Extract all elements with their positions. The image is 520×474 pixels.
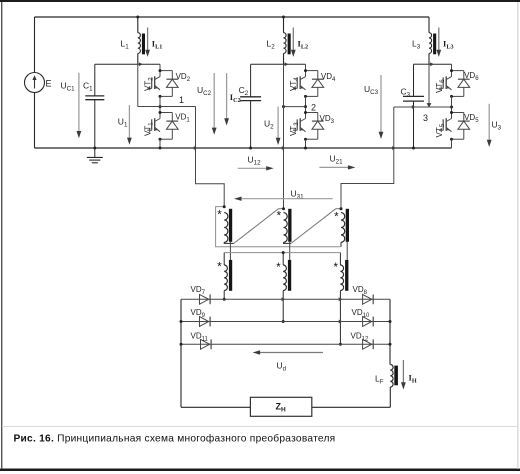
svg-text:LF: LF [375,374,384,386]
svg-text:VD5: VD5 [464,113,479,124]
svg-text:U2: U2 [264,119,274,131]
svg-text:VD1: VD1 [175,113,190,124]
wire VT4 top stub [305,64,307,70]
label VT3 [289,122,300,136]
transistor VT6 / diode VD6 pair [452,70,464,72]
wire s1 bottom to rail 1 [223,291,225,300]
wire s3 top lead [339,253,341,265]
svg-text:VD11: VD11 [191,332,209,343]
node rail3 right [389,343,392,346]
diode VD11 [201,339,210,349]
wire node 1 line [138,64,196,106]
voltage arrow U_C1 [78,73,80,133]
svg-text:IL3: IL3 [443,39,454,51]
wire node 3 tap down [341,107,394,209]
wire left bus [180,299,182,407]
svg-text:E: E [46,79,52,89]
load Z_H box [250,397,311,416]
svg-text:L3: L3 [412,39,421,51]
diode VD7 [200,294,209,304]
svg-text:L2: L2 [267,39,276,51]
wire right bus [389,299,391,364]
wire wrap-around bus [216,207,341,247]
node L1 top junction [136,16,139,19]
crossing marker s2/rail1 [282,297,286,301]
svg-text:VD8: VD8 [353,285,368,296]
svg-text:1: 1 [179,95,184,105]
svg-text:VD9: VD9 [191,308,206,319]
svg-text:Ud: Ud [277,361,286,373]
diode VD12 [363,339,372,349]
voltage arrow U_3 [488,104,490,141]
secondary winding s3 [340,265,343,291]
svg-text:IL2: IL2 [298,39,309,51]
svg-text:Рис. 16. Принципиальная схема: Рис. 16. Принципиальная схема многофазно… [14,433,336,445]
label VT1 [143,122,154,136]
wire node 2 tap down [283,64,285,208]
current arrow I_H [402,360,404,384]
svg-text:2: 2 [311,102,316,112]
svg-text:VD6: VD6 [464,71,479,82]
voltage arrow U_C3 [380,75,382,133]
wire rectifier rail 2 [181,321,390,323]
wire C1 to L1 node [95,63,138,65]
node C2 ground [249,147,252,150]
wire w1 bottom to diagonal [224,242,234,243]
node s2/rail2 [282,320,285,323]
secondary winding s2 [283,265,286,291]
svg-text:UC3: UC3 [364,84,379,96]
node VT1 ground [159,147,162,150]
wire s1 top lead [223,253,225,265]
svg-text:U3: U3 [492,120,502,132]
primary winding w1 [224,213,228,243]
wire VT4 emitter to node 2 [305,96,307,112]
node 2 tap junction [282,105,285,108]
wire L1 node to VT2 branch [138,63,160,65]
wire node 2 line [284,106,306,108]
primary winding w2 [284,213,288,243]
svg-text:C2: C2 [239,85,249,97]
node 2 junction [304,105,307,108]
crossing marker tap2/rail [282,146,286,150]
transistor VT2 / diode VD2 pair [160,70,172,72]
current arrow I_C2 [226,73,228,119]
source E [34,17,36,73]
svg-text:*: * [334,212,339,224]
crossing marker C3/node3 line [412,105,416,109]
junction marker L1 node [139,62,143,66]
node C1 ground [93,147,96,150]
wire node 3 line [394,106,452,108]
svg-text:VD3: VD3 [320,114,335,125]
secondary winding s1 [224,265,227,291]
crossing marker s3/rail1 [339,297,343,301]
diode VD8 [363,294,372,304]
wire node 1 tap down [196,107,225,207]
wire VT5 emitter to rail [451,139,453,148]
node winding w2 top [282,207,285,210]
core link w1 [229,242,231,260]
current arrow I_L3 [438,28,440,51]
svg-text:IL1: IL1 [152,39,163,51]
voltage arrow U_C2 [213,73,215,129]
svg-text:UC1: UC1 [61,81,76,93]
svg-text:VD7: VD7 [191,285,206,296]
core link w3 [346,242,348,260]
wire w3 bottom to wrap bus [340,242,342,247]
wire top rail [35,16,430,18]
crossing marker tap1/rail [194,146,198,150]
wire bottom rail right [312,406,391,408]
diode VD9 [200,317,209,327]
wire star bus [224,252,340,254]
label VT5 [435,123,446,137]
svg-text:*: * [217,210,222,222]
svg-text:VD10: VD10 [352,308,370,319]
label VT6 [435,79,446,93]
svg-text:VT3: VT3 [289,122,300,136]
svg-text:*: * [277,211,282,223]
wire diagonal into w2 top [279,208,284,210]
capacitor C3 [413,64,415,96]
wire VT2 top stub [159,64,161,70]
wire L3 node to VT6 branch [429,63,452,65]
svg-text:VD12: VD12 [351,332,369,343]
wire C2 to L2 node [251,63,284,65]
voltage arrow U_1 [128,105,130,139]
transistor VT3 / diode VD3 pair [306,112,318,114]
svg-text:UC2: UC2 [197,85,212,97]
transistor VT1 / diode VD1 pair [160,112,172,114]
svg-text:3: 3 [423,113,428,123]
svg-text:U1: U1 [118,117,128,129]
svg-text:VD2: VD2 [176,72,191,83]
crossing marker tap3/rail [392,146,396,150]
node L2 top junction [282,16,285,19]
wire rectifier rail 3 [181,343,390,345]
svg-text:C1: C1 [83,81,93,93]
wire diagonal w2-w3 [291,209,336,244]
wire bottom rail left [181,406,250,408]
capacitor C1 [94,64,96,95]
node 3 junction [450,106,453,109]
transistor VT4 / diode VD4 pair [306,70,318,72]
svg-text:U21: U21 [330,154,344,166]
svg-text:*: * [276,262,281,274]
svg-text:VT4: VT4 [289,77,300,91]
arrow U_21 [319,166,349,168]
wire VT3 emitter to rail [305,139,307,148]
svg-text:IH: IH [409,373,417,385]
inductor L3 [428,17,430,33]
node C3 ground [412,147,415,150]
node rail3 left [180,343,183,346]
node rail2 right [389,320,392,323]
inductor L_F [390,365,393,388]
node s3/rail3 [339,343,342,346]
svg-text:ZH: ZH [276,402,287,414]
svg-text:VD4: VD4 [321,72,336,83]
primary winding w3 [341,213,345,243]
wire s2 bottom to rail 2 [282,291,284,322]
svg-text:*: * [217,262,222,274]
node winding w1 top [223,205,226,208]
arrow U_d [259,352,323,354]
wire s3 bottom to rail 3 [339,291,341,345]
wire L2 node to VT4 branch [284,63,306,65]
current arrow I_L1 [147,28,149,51]
current arrow I_L2 [292,28,294,51]
node rail2 left [180,320,183,323]
node 1 junction [159,105,162,108]
arrow U_12 [238,167,268,169]
svg-text:VT5: VT5 [435,123,446,137]
inductor L1 [137,17,139,33]
crossing marker s3/rail2 [339,320,343,324]
inductor L2 [283,17,285,33]
capacitor C2 [250,64,252,96]
voltage arrow U_2 [277,107,279,139]
label VT2 [143,77,154,91]
wire VT6 top stub [451,64,453,70]
node winding w3 top [340,207,343,210]
wire rectifier rail 1 [181,298,390,300]
wire C3 to L3 node [414,63,430,65]
svg-text:VT6: VT6 [435,79,446,93]
core link w2 [289,242,291,260]
junction marker L2 node [285,62,289,66]
svg-text:VT1: VT1 [143,122,154,136]
arrow U_31 [240,198,333,200]
wire-end marker L3/node 3 [427,103,432,107]
node star bus s2 [282,251,285,254]
svg-text:*: * [334,262,339,274]
wire VT2 emitter to node 1 [159,96,161,112]
wire diagonal w1-w2 [234,209,279,244]
wire s2 top lead [282,253,284,265]
ground symbol [94,148,96,157]
junction marker L3 node [430,62,434,66]
svg-text:U12: U12 [248,155,262,167]
wire L3 down to node 3 [428,64,430,105]
wire ground rail [35,147,452,149]
svg-text:VT2: VT2 [143,77,154,91]
label VT4 [289,77,300,91]
node VT3 ground [304,147,307,150]
wire VT1 emitter to rail [159,139,161,148]
svg-text:L1: L1 [121,39,130,51]
node s1/rail1 [223,298,226,301]
transistor VT5 / diode VD5 pair [452,112,464,114]
wire diagonal into w3 top [336,208,341,210]
border frame [0,0,520,2]
wire w2 bottom to diagonal [284,242,292,243]
wire VT6 emitter to node 3 [451,96,453,112]
diode VD10 [363,317,372,327]
